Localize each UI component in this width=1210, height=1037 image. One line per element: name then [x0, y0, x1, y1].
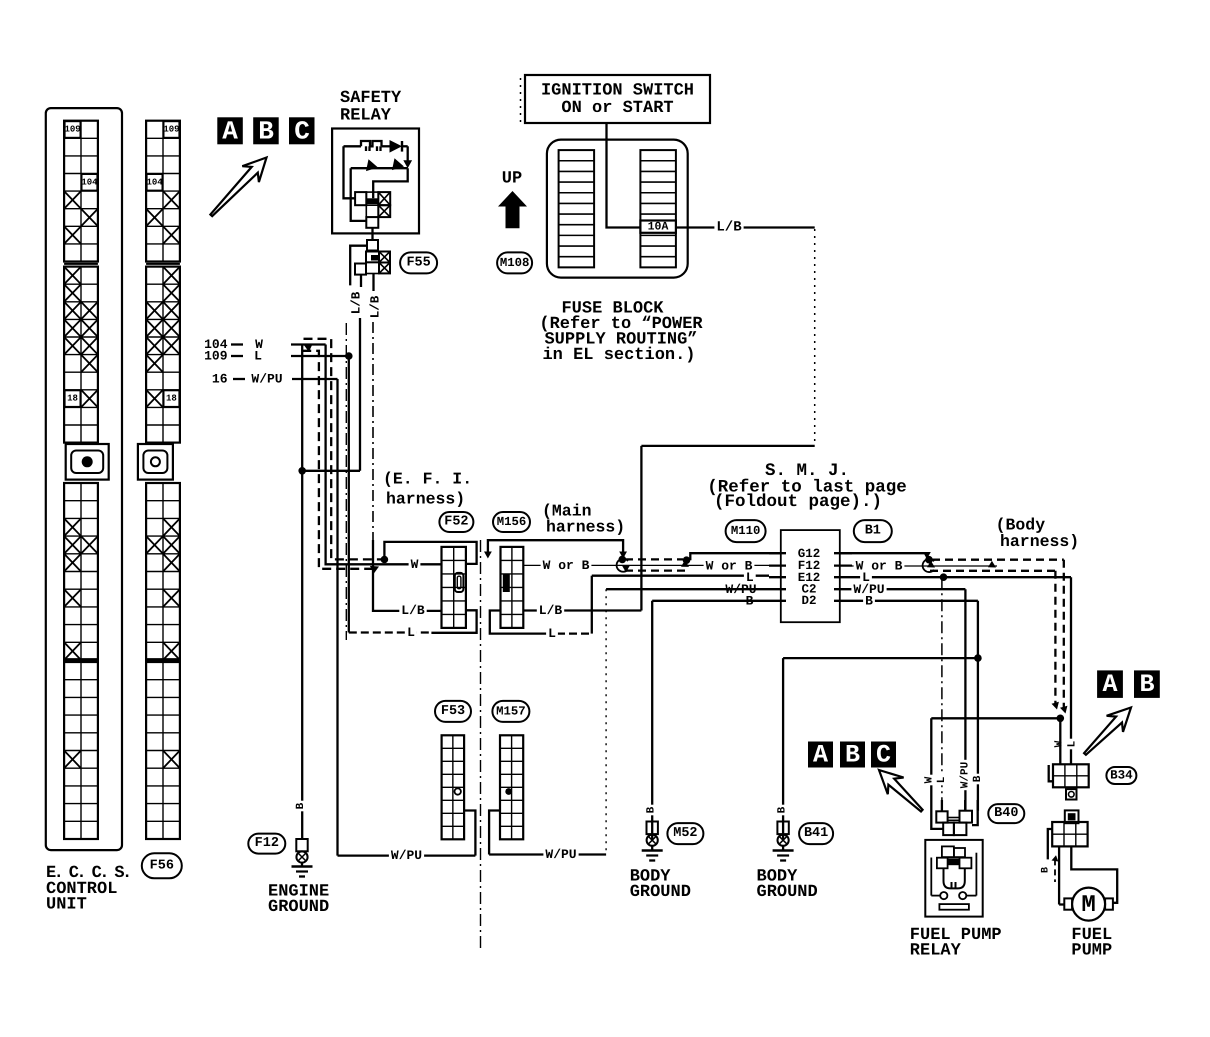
UP arrow (solid) [498, 191, 527, 228]
fuel pump wires [1048, 829, 1117, 905]
wire label B (SMJ left) [744, 595, 756, 607]
IGNITION SWITCH caption [541, 82, 694, 119]
wire label L (M156) [546, 627, 558, 639]
svg-text:W/PU: W/PU [391, 848, 422, 863]
connector B34 grid [1049, 764, 1089, 787]
wire label W or B (M156) [541, 559, 592, 571]
svg-text:UP: UP [502, 170, 522, 189]
harness boundary dash-dot (EFI/Main) [480, 540, 482, 952]
connector M156 grid [501, 547, 524, 628]
connector F56 strip (right of ECCS) [138, 121, 180, 839]
view marker C (bottom) [871, 742, 896, 768]
caption (Body harness) [996, 516, 1080, 552]
S.M.J. pin E12 [769, 571, 852, 585]
svg-text:SAFETY: SAFETY [340, 89, 402, 108]
view marker A (top) [217, 117, 243, 144]
wire label B (M52) [646, 805, 656, 816]
connector label F53 [435, 701, 471, 722]
svg-text:GROUND: GROUND [630, 883, 691, 902]
wire label B (engine ground) [296, 801, 306, 812]
svg-text:W/PU: W/PU [545, 847, 576, 862]
wire label L/B (F52) [399, 605, 426, 617]
svg-text:in EL section.): in EL section.) [542, 346, 695, 365]
wire L (SMJ right) to B34 [852, 577, 1071, 764]
wire F55 right pin L/B to F52 [373, 322, 442, 611]
safety relay internal connector cells [355, 192, 390, 228]
arrow to markers ABC (bottom) [879, 770, 923, 812]
fuse column left [559, 150, 595, 267]
svg-text:18: 18 [166, 394, 177, 404]
wire label L/B (M156) [537, 605, 564, 617]
svg-text:B1: B1 [865, 524, 881, 539]
svg-text:B: B [646, 806, 658, 813]
svg-text:W/PU: W/PU [251, 372, 282, 387]
svg-text:(Foldout page).): (Foldout page).) [714, 492, 882, 512]
wire 16 W/PU to F53 [292, 379, 475, 856]
svg-text:B: B [972, 775, 984, 782]
svg-text:D2: D2 [801, 594, 816, 608]
fuel pump connector lock (black) [1065, 810, 1079, 823]
wire label L (SMJ right) [860, 571, 872, 583]
junction dot G12 left option [683, 556, 691, 564]
connector M157 grid [500, 735, 523, 839]
wire B branch to body ground B41 [783, 658, 978, 839]
edge dashes left of ignition box [520, 78, 522, 122]
svg-text:C: C [294, 117, 310, 147]
option dashed pair (right of SMJ) [923, 559, 1068, 713]
pin label W (B40) [924, 775, 934, 786]
svg-text:M110: M110 [731, 524, 761, 538]
connector F52 shell bottom [431, 610, 476, 633]
safety relay box [332, 129, 419, 234]
safety relay coil+diode wire [344, 140, 408, 153]
safety relay internal wiring [344, 146, 408, 221]
view marker A (right) [1097, 670, 1123, 698]
fuel pump relay internals [931, 846, 976, 909]
connector B40 [931, 800, 977, 835]
svg-text:104: 104 [81, 177, 98, 187]
pin label W/PU (B40) [960, 760, 970, 790]
wire F55 L/B to engine ground junction [302, 318, 360, 471]
wire label L (F52) [405, 626, 417, 638]
view marker B (bottom) [840, 742, 865, 768]
fuel pump relay box [925, 840, 982, 917]
connector label B41 [799, 823, 833, 844]
connector label B1 [854, 520, 892, 542]
svg-text:L: L [548, 626, 556, 641]
svg-text:PUMP: PUMP [1071, 942, 1112, 961]
svg-text:harness): harness) [386, 490, 465, 509]
E.C.C.S. control unit connector strip (left) [64, 121, 109, 839]
body ground terminal M52 [642, 822, 663, 861]
svg-text:B: B [865, 593, 873, 608]
wire label W/PU (M157 wire) [543, 848, 578, 860]
svg-text:W/PU: W/PU [959, 762, 971, 788]
connector M156 shell bottom [490, 611, 557, 634]
junction dot G12 right option [925, 556, 933, 564]
SAFETY RELAY caption [340, 89, 402, 126]
wire to engine ground [301, 345, 303, 840]
wire 104 W to F52 [291, 345, 442, 565]
S.M.J. pin F12 [769, 559, 852, 573]
F55 pin wires [361, 273, 374, 291]
svg-text:W: W [411, 557, 419, 572]
arrow to markers AB (right) [1084, 708, 1131, 755]
E.C.C.S. CONTROL UNIT caption [46, 864, 130, 915]
connector label F55 [400, 252, 437, 273]
connector label B34 [1106, 767, 1136, 784]
wire relay to F55 [371, 228, 373, 240]
connector label M156 [493, 512, 530, 532]
svg-text:W or B: W or B [543, 558, 590, 573]
svg-text:M: M [1081, 892, 1095, 919]
svg-text:L: L [936, 776, 948, 783]
pin label L (B40) [937, 775, 947, 786]
wire W or B (M156 to SMJ F12) [523, 564, 769, 566]
svg-text:10A: 10A [648, 220, 669, 233]
wire G12 right + option drop [840, 552, 931, 559]
safety relay right drop with arrow [403, 146, 412, 168]
svg-text:B40: B40 [994, 806, 1018, 821]
wire label W or B (SMJ right) [854, 560, 905, 572]
svg-text:harness): harness) [1000, 532, 1079, 551]
connector F53 grid [442, 735, 465, 839]
view marker B (top) [253, 117, 279, 144]
svg-text:F56: F56 [150, 858, 174, 873]
fuse column right [640, 150, 676, 267]
svg-text:L/B: L/B [539, 603, 563, 618]
svg-text:F53: F53 [441, 704, 465, 719]
svg-text:GROUND: GROUND [268, 898, 329, 917]
BODY GROUND caption (M52) [630, 868, 691, 903]
junction dot on F52 shell [381, 556, 389, 564]
wire stubs into B34 [1059, 718, 1061, 764]
svg-text:L/B: L/B [369, 295, 383, 318]
connector label F56 [142, 853, 182, 878]
M156 key (black) [503, 574, 510, 593]
svg-text:A: A [1102, 670, 1117, 699]
connector label B40 [988, 804, 1024, 823]
svg-text:B34: B34 [1110, 769, 1133, 783]
pin label W (B34) [1054, 739, 1064, 750]
view marker B (right) [1134, 670, 1160, 698]
fuse 10A [640, 220, 676, 233]
svg-text:RELAY: RELAY [910, 942, 962, 961]
wire label W or B (SMJ left) [704, 560, 755, 572]
svg-text:F55: F55 [406, 255, 430, 270]
terminal label 104 W [204, 337, 263, 352]
svg-text:A: A [222, 117, 238, 147]
caption (Main harness) [542, 502, 625, 537]
svg-text:M52: M52 [673, 826, 697, 841]
wire M156 L to SMJ E12 [557, 576, 769, 634]
wire label L/B (fuse output) [714, 221, 743, 234]
wire L branch to B40 (dash-dot) [941, 577, 943, 811]
svg-text:F12: F12 [255, 836, 279, 851]
svg-text:16: 16 [212, 372, 228, 387]
E.C.C.S. control unit outer frame [46, 108, 122, 850]
terminal label 109 L [204, 349, 262, 364]
svg-text:GROUND: GROUND [757, 883, 818, 902]
wire W/PU (SMJ right) to B40 [852, 589, 965, 811]
option dashed pair (left of SMJ) [617, 559, 687, 572]
fuel pump motor [1064, 888, 1113, 921]
wire label W (F52) [409, 558, 421, 570]
connector label F12 [248, 834, 285, 854]
svg-text:F52: F52 [444, 515, 468, 530]
wire ignition switch to fuse [607, 123, 641, 228]
svg-text:M157: M157 [496, 704, 526, 718]
connector label M52 [667, 823, 703, 844]
M157 key dot [505, 788, 512, 795]
wire label W/PU (SMJ left) [723, 583, 758, 595]
svg-text:C: C [876, 741, 891, 770]
wire 109 L to F52 [291, 356, 431, 633]
arrow to markers ABC (top) [210, 158, 266, 217]
connector F55 cells [355, 240, 390, 275]
svg-text:B: B [777, 806, 789, 813]
S.M.J. box [781, 530, 840, 622]
wire label W/PU (F53 wire) [389, 849, 424, 861]
wire label B (B41) [777, 805, 787, 816]
svg-text:(E. F. I.: (E. F. I. [383, 470, 472, 489]
B34 lock tab [1066, 789, 1077, 799]
fuse block outline [547, 140, 688, 278]
wire label L (SMJ left) [744, 571, 756, 583]
S.M.J. pin D2 [769, 594, 852, 608]
pin label L (B34) [1067, 739, 1077, 750]
body ground terminal B41 [773, 822, 794, 861]
svg-text:109: 109 [204, 349, 228, 364]
IGNITION SWITCH box [525, 75, 710, 123]
svg-text:UNIT: UNIT [46, 896, 87, 915]
wire W/PU (SMJ left) to M157 [489, 589, 769, 854]
wire W or B (SMJ right) [852, 561, 997, 568]
junction dot L right [940, 573, 948, 581]
svg-text:M108: M108 [500, 256, 530, 270]
arrow marker on W wire [304, 344, 313, 352]
view marker A (bottom) [808, 742, 833, 768]
svg-text:harness): harness) [546, 518, 625, 537]
wire label W/PU (SMJ right) [851, 583, 886, 595]
junction dot engine ground wire [298, 467, 306, 475]
engine ground terminal [292, 839, 313, 877]
svg-text:M156: M156 [497, 515, 527, 529]
FUEL PUMP RELAY caption [910, 926, 1002, 961]
junction dot 109 L [345, 352, 353, 360]
svg-text:L: L [1067, 740, 1079, 747]
svg-text:ON or START: ON or START [561, 99, 673, 118]
S.M.J. pin C2 [769, 583, 852, 597]
F52 key slot [455, 573, 464, 592]
FUEL PUMP caption [1071, 926, 1112, 961]
arrow marks on W or B wire (left) [622, 560, 689, 572]
svg-text:104: 104 [146, 177, 163, 187]
wire L/B from fuse to M156 [523, 228, 814, 611]
connector label M110 [726, 520, 766, 542]
ENGINE GROUND caption [268, 883, 329, 918]
junction dot W link [1057, 715, 1065, 723]
svg-text:18: 18 [67, 394, 78, 404]
dashed option wire A (W or B to F52 shell) [304, 339, 382, 560]
connector F52 shell top [384, 542, 476, 564]
connector label M157 [492, 701, 529, 722]
wire G12 hook (left) [690, 553, 781, 560]
svg-text:IGNITION SWITCH: IGNITION SWITCH [541, 82, 694, 101]
wire B (SMJ left) to body ground M52 [652, 601, 769, 839]
fuel pump connector grid [1052, 822, 1087, 846]
svg-text:RELAY: RELAY [340, 107, 392, 126]
connector label M108 [497, 252, 532, 273]
view marker C (top) [289, 117, 315, 144]
harness boundary dash-dot (EFI left) [345, 323, 347, 640]
svg-text:B41: B41 [804, 826, 828, 841]
BODY GROUND caption (B41) [757, 868, 818, 903]
svg-text:A: A [813, 741, 828, 770]
caption (E.F.I. harness) [383, 470, 472, 509]
S.M.J. pin G12 [769, 547, 852, 561]
svg-text:L: L [407, 625, 415, 640]
dashed option wire B (to F52 W) [302, 351, 379, 574]
F53 key circle [455, 788, 461, 794]
svg-text:W: W [924, 776, 936, 783]
connector M156 shell top (option route) [484, 540, 627, 558]
svg-text:B: B [295, 802, 307, 809]
F55 shell bracket [350, 246, 367, 286]
pin label B (B40) [973, 774, 983, 785]
svg-text:L/B: L/B [350, 291, 364, 314]
svg-text:L: L [254, 349, 262, 364]
svg-text:L/B: L/B [401, 603, 425, 618]
FUSE BLOCK caption [539, 300, 703, 366]
wire B (SMJ right) to B40 [852, 601, 978, 811]
svg-text:L/B: L/B [716, 220, 742, 236]
safety relay contact wire [351, 158, 408, 171]
svg-text:B: B [1041, 867, 1052, 873]
svg-text:B: B [1139, 670, 1154, 699]
terminal label 16 W/PU [212, 372, 283, 387]
junction dot M156 option [619, 556, 627, 564]
caption S.M.J. [707, 461, 907, 512]
svg-text:109: 109 [163, 125, 179, 135]
svg-text:109: 109 [64, 125, 80, 135]
connector F52 grid [442, 547, 466, 628]
svg-text:B: B [845, 741, 860, 770]
wire B40 W pin from B34 link [931, 718, 1060, 800]
svg-text:B: B [258, 117, 274, 147]
wire label B (SMJ right) [863, 595, 875, 607]
junction dot B branch [974, 654, 982, 662]
connector label F52 [439, 512, 473, 532]
